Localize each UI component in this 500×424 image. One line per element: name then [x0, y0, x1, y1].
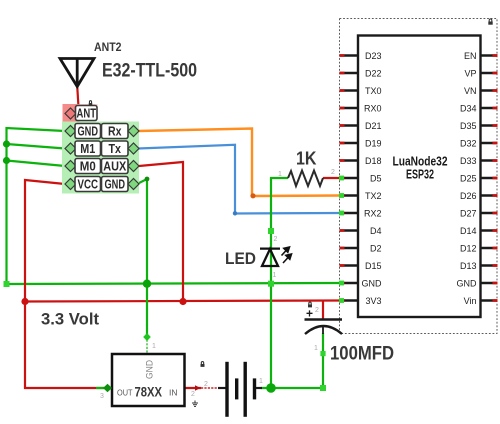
svg-text:D5: D5	[370, 174, 382, 184]
svg-text:M1: M1	[80, 141, 95, 156]
svg-text:D22: D22	[365, 69, 382, 79]
svg-text:3V3: 3V3	[365, 296, 381, 306]
svg-text:D34: D34	[460, 104, 477, 114]
svg-text:RX2: RX2	[364, 209, 382, 219]
svg-text:VP: VP	[464, 69, 476, 79]
svg-text:IN: IN	[169, 388, 178, 398]
svg-text:2: 2	[204, 381, 208, 388]
svg-text:VN: VN	[464, 86, 477, 96]
svg-text:100MFD: 100MFD	[330, 343, 394, 365]
svg-text:3: 3	[100, 393, 104, 400]
svg-text:GND: GND	[362, 279, 383, 289]
svg-text:D15: D15	[365, 261, 382, 271]
svg-text:D33: D33	[460, 156, 477, 166]
svg-text:ESP32: ESP32	[406, 168, 434, 182]
svg-text:D4: D4	[370, 226, 382, 236]
svg-text:D25: D25	[460, 174, 477, 184]
svg-text:VCC: VCC	[78, 177, 99, 192]
svg-text:Vin: Vin	[464, 296, 477, 306]
svg-text:D18: D18	[365, 156, 382, 166]
svg-text:Tx: Tx	[109, 141, 122, 156]
svg-text:D26: D26	[460, 191, 477, 201]
svg-text:TX0: TX0	[365, 86, 382, 96]
svg-text:D12: D12	[460, 244, 477, 254]
svg-text:1: 1	[152, 343, 156, 350]
svg-text:GND: GND	[145, 360, 155, 379]
svg-text:LED: LED	[225, 249, 256, 268]
svg-text:D2: D2	[370, 244, 382, 254]
svg-text:GND: GND	[457, 279, 478, 289]
svg-text:2: 2	[274, 236, 278, 243]
svg-text:D14: D14	[460, 226, 477, 236]
svg-text:GND: GND	[105, 177, 126, 192]
svg-text:Rx: Rx	[108, 124, 122, 139]
svg-text:GND: GND	[78, 124, 99, 139]
svg-text:D13: D13	[460, 261, 477, 271]
svg-text:D35: D35	[460, 121, 477, 131]
svg-text:TX2: TX2	[365, 191, 382, 201]
svg-text:LuaNode32: LuaNode32	[393, 155, 448, 169]
svg-text:78XX: 78XX	[135, 385, 163, 400]
svg-text:D21: D21	[365, 121, 382, 131]
svg-text:+: +	[306, 307, 313, 321]
svg-text:1: 1	[278, 171, 282, 178]
svg-text:1: 1	[314, 345, 318, 352]
svg-text:D23: D23	[365, 51, 382, 61]
svg-text:1: 1	[259, 378, 263, 385]
svg-text:RX0: RX0	[364, 104, 382, 114]
svg-text:EN: EN	[464, 51, 477, 61]
svg-text:AUX: AUX	[103, 159, 126, 174]
svg-text:OUT: OUT	[117, 388, 133, 398]
svg-text:2: 2	[315, 307, 319, 314]
svg-text:E32-TTL-500: E32-TTL-500	[102, 60, 197, 82]
svg-text:2: 2	[331, 169, 335, 176]
svg-text:ANT2: ANT2	[94, 42, 122, 54]
svg-text:D27: D27	[460, 209, 477, 219]
svg-text:D32: D32	[460, 139, 477, 149]
svg-text:M0: M0	[80, 159, 96, 174]
svg-text:ANT: ANT	[77, 106, 97, 121]
svg-text:2: 2	[191, 391, 195, 398]
svg-text:1K: 1K	[296, 149, 317, 169]
svg-text:1: 1	[273, 272, 277, 279]
svg-text:3.3 Volt: 3.3 Volt	[41, 310, 99, 329]
svg-text:D19: D19	[365, 139, 382, 149]
